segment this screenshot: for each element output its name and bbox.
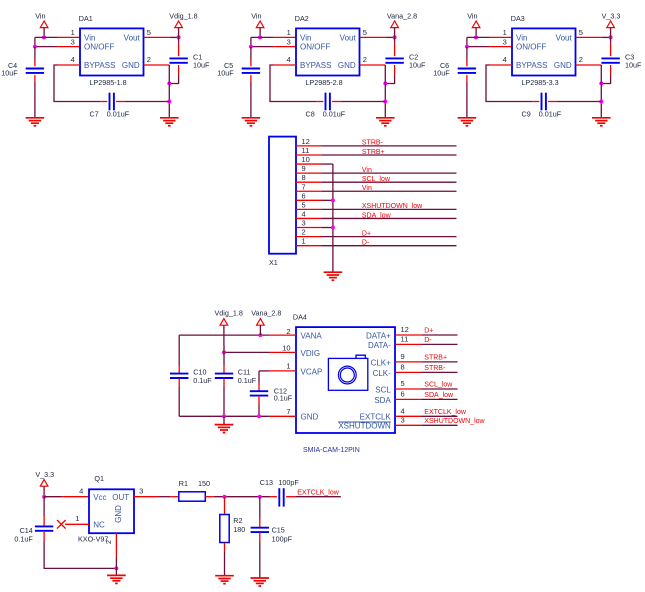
pin 1 lead — [65, 523, 89, 525]
node junction — [393, 35, 397, 39]
svg-text:GND: GND — [301, 413, 319, 422]
wire — [43, 497, 45, 516]
resistor R2 lead — [224, 543, 226, 552]
pin 2 lead — [296, 236, 322, 238]
wire — [422, 334, 458, 336]
wire — [322, 181, 457, 183]
capacitor C11 — [215, 374, 233, 378]
pin 8 number — [401, 363, 405, 372]
svg-text:3: 3 — [302, 219, 306, 228]
power symbol V_3.3 — [607, 21, 615, 28]
capacitor C7 — [110, 93, 114, 111]
svg-text:DATA-: DATA- — [368, 341, 391, 350]
wire — [169, 75, 178, 84]
svg-text:4: 4 — [401, 407, 405, 416]
wire — [250, 47, 252, 60]
svg-text:11: 11 — [302, 146, 310, 155]
svg-text:5: 5 — [579, 28, 583, 37]
wire — [322, 172, 457, 174]
svg-text:1: 1 — [503, 28, 507, 37]
svg-text:Vin: Vin — [84, 33, 95, 42]
wire — [322, 227, 333, 229]
capacitor C1 — [169, 58, 187, 62]
wire — [34, 47, 36, 60]
regulator DA3 body — [512, 28, 576, 75]
ground — [592, 118, 611, 126]
svg-text:100pF: 100pF — [278, 478, 299, 487]
node junction — [599, 100, 603, 104]
wire — [178, 387, 180, 417]
pin 12 lead — [296, 145, 322, 147]
wire — [601, 75, 610, 84]
wire — [422, 343, 458, 345]
node junction — [42, 495, 46, 499]
svg-text:X1: X1 — [269, 258, 278, 267]
capacitor C8 label — [306, 109, 346, 118]
svg-text:STRB-: STRB- — [424, 365, 446, 372]
capacitor C3 — [601, 58, 619, 62]
wire — [270, 65, 316, 102]
svg-text:DA4: DA4 — [293, 313, 307, 322]
node junction — [258, 495, 262, 499]
svg-text:10: 10 — [282, 343, 290, 352]
wire — [251, 37, 273, 46]
svg-text:7: 7 — [286, 407, 290, 416]
svg-text:STRB+: STRB+ — [424, 355, 447, 362]
camera module DA4 body — [296, 327, 395, 433]
capacitor C9 label — [522, 109, 562, 118]
wire — [35, 37, 57, 46]
svg-text:BYPASS: BYPASS — [84, 61, 115, 70]
svg-text:100pF: 100pF — [272, 535, 293, 544]
svg-text:SDA: SDA — [374, 396, 391, 405]
pin name XSHUTDOWN (with overline) — [338, 422, 391, 431]
wire — [170, 36, 179, 38]
node junction — [258, 35, 262, 39]
regulator DA3 designator — [511, 14, 525, 23]
svg-text:0.1uF: 0.1uF — [238, 376, 257, 385]
svg-text:EXTCLK_low: EXTCLK_low — [424, 409, 467, 416]
wire — [250, 83, 252, 118]
wire — [214, 496, 270, 498]
svg-text:BYPASS: BYPASS — [516, 61, 547, 70]
wire — [322, 245, 457, 247]
svg-text:DA3: DA3 — [511, 14, 525, 23]
pin 6 lead — [296, 199, 322, 201]
svg-text:SCL_low: SCL_low — [424, 382, 453, 389]
power symbol Vana_2.8 — [257, 319, 265, 326]
wire — [259, 28, 261, 38]
capacitor C3 lead — [610, 43, 612, 57]
camera module DA4 designator — [293, 313, 307, 322]
pin 4 lead — [395, 415, 422, 417]
wire (VANA net) — [179, 334, 270, 336]
ground — [458, 118, 477, 126]
connector X1 designator — [269, 258, 278, 267]
node junction — [331, 226, 335, 230]
svg-text:D+: D+ — [362, 230, 371, 237]
svg-text:CLK+: CLK+ — [371, 358, 392, 367]
capacitor C10 label — [193, 367, 212, 384]
node Vin (net label) — [362, 167, 372, 174]
svg-text:3: 3 — [503, 37, 507, 46]
wire (left rail) — [178, 335, 180, 366]
svg-text:150: 150 — [198, 479, 210, 488]
node junction — [383, 82, 387, 86]
power symbol Vdig_1.8 — [175, 21, 183, 28]
svg-text:V_3.3: V_3.3 — [602, 11, 621, 20]
wire — [115, 558, 117, 568]
svg-text:XSHUTDOWN_low: XSHUTDOWN_low — [424, 418, 485, 425]
pin 4 lead — [490, 64, 513, 66]
capacitor C13 lead — [286, 496, 295, 498]
pin 5 lead — [296, 208, 322, 210]
pin 2 lead — [115, 533, 117, 558]
pin 2 lead — [576, 64, 602, 66]
svg-text:Vcc: Vcc — [93, 493, 106, 502]
svg-text:0.1uF: 0.1uF — [193, 376, 212, 385]
pin name DATA- — [368, 341, 391, 350]
ground — [242, 118, 261, 126]
wire — [322, 217, 457, 219]
pin 1 number — [302, 237, 306, 246]
wire — [422, 398, 458, 400]
pin 5 number — [401, 379, 405, 388]
capacitor C5 label — [217, 61, 234, 78]
wire — [385, 75, 394, 84]
pin 11 lead — [395, 343, 422, 345]
wire — [259, 325, 261, 335]
pin 2 number (rotated) — [106, 540, 113, 544]
pin 10 lead — [270, 351, 296, 353]
capacitor C2 lead — [394, 65, 396, 75]
capacitor C12 lead — [258, 396, 260, 405]
node Vana_2.8 (net label) — [387, 11, 417, 20]
node junction — [331, 198, 335, 202]
pin 12 number — [302, 137, 310, 146]
node STRB+ (net label) — [362, 149, 385, 156]
svg-text:2: 2 — [579, 55, 583, 64]
capacitor C11 label — [238, 367, 257, 384]
pin name SCL — [375, 386, 391, 395]
svg-text:Vana_2.8: Vana_2.8 — [251, 309, 281, 318]
wire — [178, 37, 180, 42]
node junction — [222, 350, 226, 354]
node SCL_low (net label) — [362, 176, 391, 183]
connector X1 body — [269, 137, 296, 254]
node Vin (net label) — [362, 185, 372, 192]
pin 7 number — [302, 182, 306, 191]
pin names — [516, 33, 572, 70]
node junction — [114, 566, 118, 570]
wire — [322, 190, 457, 192]
svg-text:DA2: DA2 — [295, 14, 309, 23]
capacitor C15 lead — [259, 532, 261, 542]
svg-text:DATA+: DATA+ — [366, 332, 391, 341]
capacitor C9 lead — [532, 101, 539, 103]
wire — [259, 542, 261, 578]
pin 5 lead — [395, 388, 422, 390]
svg-text:ON/OFF: ON/OFF — [516, 43, 546, 52]
svg-text:STRB-: STRB- — [362, 140, 384, 147]
resistor R1 lead — [171, 496, 179, 498]
svg-text:VCAP: VCAP — [301, 367, 323, 376]
capacitor C1 lead — [178, 65, 180, 75]
node EXTCLK_low (net label) — [297, 489, 340, 496]
wire — [322, 154, 457, 156]
pin 8 lead — [395, 371, 422, 373]
svg-text:GND: GND — [554, 61, 572, 70]
svg-text:SCL: SCL — [375, 386, 391, 395]
node D- (net label) — [362, 239, 370, 246]
svg-text:XSHUTDOWN: XSHUTDOWN — [338, 422, 391, 431]
resistor R1 label — [179, 479, 210, 488]
ground — [251, 578, 270, 586]
svg-text:12: 12 — [401, 325, 409, 334]
node SCL_low (net label) — [424, 382, 453, 389]
node junction — [599, 82, 603, 86]
wire — [467, 37, 489, 46]
wire — [126, 101, 169, 103]
wire — [322, 163, 333, 165]
capacitor C8 — [326, 93, 330, 111]
resistor R1 — [179, 492, 206, 501]
svg-text:0.1uF: 0.1uF — [14, 534, 33, 543]
node SDA_low (net label) — [424, 392, 454, 399]
pin 4 lead — [58, 64, 81, 66]
pin name SDA — [374, 396, 391, 405]
pin 4 lead — [274, 64, 297, 66]
pin 8 number — [302, 173, 306, 182]
capacitor C10 — [170, 374, 188, 378]
pin 12 number — [401, 325, 409, 334]
capacitor C6 lead — [466, 60, 468, 67]
pin numbers — [71, 28, 151, 64]
svg-text:C7: C7 — [90, 109, 99, 118]
wire — [34, 83, 36, 118]
pin 9 lead — [395, 361, 422, 363]
capacitor C7 lead — [116, 101, 126, 103]
pin 5 lead — [144, 36, 170, 38]
capacitor C14 lead — [43, 531, 45, 541]
svg-text:DA1: DA1 — [79, 14, 93, 23]
capacitor C3 label — [625, 52, 642, 69]
pin 4 number — [401, 407, 405, 416]
svg-text:4: 4 — [79, 487, 83, 496]
capacitor C12 lead — [258, 383, 260, 392]
node XSHUTDOWN_low (net label) — [424, 418, 485, 425]
pin 6 number — [302, 191, 306, 200]
pin 4 lead — [296, 217, 322, 219]
pin 3 lead — [134, 496, 158, 498]
svg-text:GND: GND — [114, 505, 123, 523]
pin 9 number — [302, 164, 306, 173]
node V_3.3 (net label) — [35, 470, 54, 479]
capacitor C4 — [26, 69, 44, 73]
svg-text:OUT: OUT — [112, 493, 129, 502]
capacitor C3 lead — [610, 65, 612, 75]
svg-text:3: 3 — [71, 37, 75, 46]
svg-text:Vout: Vout — [124, 33, 141, 42]
svg-text:2: 2 — [302, 228, 306, 237]
wire — [54, 65, 100, 102]
capacitor C9 — [542, 93, 546, 111]
capacitor C6 label — [433, 61, 450, 78]
svg-text:10uF: 10uF — [433, 69, 450, 78]
pin 3 lead — [296, 227, 322, 229]
svg-text:2: 2 — [363, 55, 367, 64]
wire — [322, 199, 333, 201]
pin 3 number — [401, 416, 405, 425]
pin name DATA+ — [366, 332, 391, 341]
capacitor C8 lead — [316, 101, 323, 103]
svg-text:180: 180 — [233, 525, 245, 534]
svg-text:Vana_2.8: Vana_2.8 — [387, 11, 417, 20]
pin 2 lead — [144, 64, 170, 66]
capacitor C13 lead — [270, 496, 277, 498]
node D+ (net label) — [424, 328, 433, 335]
pin 5 lead — [576, 36, 602, 38]
pin numbers — [287, 28, 367, 64]
wire — [610, 28, 612, 38]
pin 9 number — [401, 352, 405, 361]
wire — [422, 424, 458, 426]
pin 6 lead — [395, 398, 422, 400]
svg-text:D+: D+ — [424, 328, 433, 335]
capacitor C8 lead — [332, 101, 342, 103]
wire — [602, 36, 611, 38]
node XSHUTDOWN_low (net label) — [362, 203, 423, 210]
pin 2 lead — [360, 64, 386, 66]
pin 8 lead — [296, 181, 322, 183]
node SDA_low (net label) — [362, 212, 392, 219]
pin 6 number — [401, 390, 405, 399]
svg-text:R1: R1 — [179, 479, 188, 488]
node junction — [177, 35, 181, 39]
wire — [251, 36, 273, 38]
capacitor C10 lead — [178, 379, 180, 387]
wire — [158, 496, 170, 498]
capacitor C12 label — [274, 386, 293, 402]
node STRB- (net label) — [424, 365, 446, 372]
capacitor C14 lead — [43, 516, 45, 526]
pin 5 number — [302, 200, 306, 209]
power symbol Vdig_1.8 — [220, 319, 228, 326]
svg-text:1: 1 — [71, 28, 75, 37]
svg-text:2: 2 — [147, 55, 151, 64]
node Vin (net label, block 3) — [467, 11, 477, 20]
svg-text:BYPASS: BYPASS — [300, 61, 331, 70]
pin 1 lead — [270, 370, 296, 372]
regulator DA2 body — [296, 28, 360, 75]
wire — [258, 405, 260, 417]
regulator DA2 value — [306, 78, 343, 87]
ground — [26, 118, 45, 126]
svg-text:Vin: Vin — [516, 33, 527, 42]
capacitor C2 — [385, 58, 403, 62]
pin 3 lead — [489, 46, 512, 48]
svg-text:1: 1 — [286, 361, 290, 370]
svg-text:Vin: Vin — [362, 185, 372, 192]
svg-text:5: 5 — [401, 379, 405, 388]
capacitor C13 — [279, 488, 283, 506]
svg-text:4: 4 — [302, 209, 306, 218]
wire — [115, 568, 117, 575]
svg-text:D-: D- — [362, 239, 370, 246]
oscillator Q1 body — [89, 489, 134, 533]
pin numbers (left) — [282, 327, 290, 416]
ground — [376, 118, 395, 126]
power symbol Vin (block 1) — [40, 21, 48, 28]
svg-text:VANA: VANA — [301, 332, 323, 341]
pin 3 number — [302, 219, 306, 228]
svg-text:Vdig_1.8: Vdig_1.8 — [215, 309, 243, 318]
wire (VDIG net) — [224, 351, 270, 353]
wire — [35, 36, 57, 38]
svg-text:D-: D- — [424, 337, 432, 344]
regulator DA2 designator — [295, 14, 309, 23]
capacitor C4 lead — [34, 60, 36, 67]
resistor R2 lead — [224, 497, 226, 515]
capacitor C1 lead — [178, 43, 180, 57]
svg-text:9: 9 — [302, 164, 306, 173]
pin 9 lead — [296, 172, 322, 174]
node Vin (net label, block 2) — [251, 11, 261, 20]
svg-text:4: 4 — [287, 55, 291, 64]
wire — [466, 83, 468, 118]
node junction — [249, 45, 253, 49]
resistor R1 lead — [205, 496, 214, 498]
svg-text:10uF: 10uF — [409, 61, 426, 70]
svg-text:Vin: Vin — [251, 11, 261, 20]
power symbol Vana_2.8 — [391, 21, 399, 28]
ground — [215, 576, 234, 584]
pin 11 number — [401, 335, 409, 344]
capacitor C14 label — [14, 526, 33, 543]
pin names — [300, 33, 356, 70]
wire — [600, 65, 602, 118]
svg-text:SDA_low: SDA_low — [424, 392, 454, 399]
capacitor C5 lead — [250, 75, 252, 82]
svg-text:2: 2 — [286, 327, 290, 336]
wire — [44, 496, 62, 498]
svg-text:EXTCLK: EXTCLK — [360, 413, 392, 422]
svg-text:1: 1 — [287, 28, 291, 37]
capacitor C2 lead — [394, 43, 396, 57]
wire — [43, 28, 45, 38]
camera icon — [328, 355, 367, 390]
svg-text:4: 4 — [71, 55, 75, 64]
ground — [215, 425, 234, 433]
pin 11 number — [302, 146, 310, 155]
node junction — [33, 45, 37, 49]
wire — [223, 387, 225, 417]
svg-text:XSHUTDOWN_low: XSHUTDOWN_low — [362, 203, 423, 210]
ground — [160, 118, 179, 126]
svg-text:R2: R2 — [233, 516, 242, 525]
capacitor C12 — [250, 391, 268, 395]
node D- (net label) — [424, 337, 432, 344]
pin 11 lead — [296, 154, 322, 156]
node D+ (net label) — [362, 230, 371, 237]
pin 4 number — [302, 209, 306, 218]
svg-text:10uF: 10uF — [217, 69, 234, 78]
node junction — [465, 45, 469, 49]
regulator DA3 value — [522, 78, 559, 87]
node junction — [42, 35, 46, 39]
pin 3 lead — [395, 424, 422, 426]
svg-text:SCL_low: SCL_low — [362, 176, 391, 183]
